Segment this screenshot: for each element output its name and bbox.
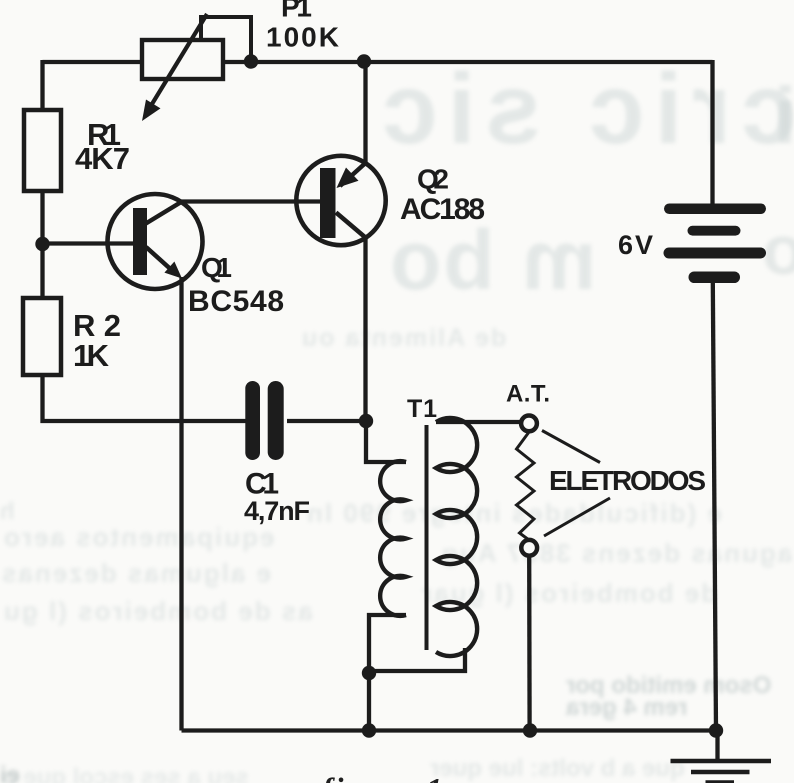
node junction dots <box>35 54 723 737</box>
node bottom rail electrode junction <box>523 723 537 737</box>
svg-text:100K: 100K <box>266 21 339 52</box>
node R1 R2 base junction <box>35 237 49 251</box>
transistor Q2 <box>296 156 385 245</box>
svg-text:A.T.: A.T. <box>506 381 550 408</box>
svg-text:1K: 1K <box>73 338 110 373</box>
svg-text:6V: 6V <box>618 230 653 260</box>
transformer T1 core <box>425 425 429 650</box>
svg-text:Q1: Q1 <box>201 252 232 283</box>
wire left rail middle <box>40 190 44 299</box>
wire top rail <box>43 60 713 64</box>
wire Q2 emitter up to top rail <box>363 62 367 164</box>
terminal A.T. upper <box>521 416 537 432</box>
wire right rail upper <box>710 60 714 204</box>
bleed-through background text <box>372 52 794 167</box>
svg-text:T 1: T 1 <box>407 395 437 423</box>
svg-text:BC548: BC548 <box>188 285 284 318</box>
svg-text:4K7: 4K7 <box>75 141 130 176</box>
resistor R2 <box>23 298 61 375</box>
node C1 Q2 T1 junction <box>359 414 373 428</box>
figure caption partial <box>322 771 445 783</box>
svg-text:Q2: Q2 <box>417 164 449 195</box>
wire T1 primary bottom <box>369 615 406 673</box>
wire bottom rail <box>182 728 717 732</box>
wire battery negative ground stub <box>715 730 719 759</box>
potentiometer P1 <box>142 14 251 121</box>
spark gap zigzag <box>517 432 535 540</box>
svg-text:AC188: AC188 <box>400 193 485 226</box>
wire T1 secondary bottom <box>369 648 465 671</box>
wire T1 secondary top to AT <box>436 420 521 424</box>
node bottom rail T1 junction <box>362 723 376 737</box>
wire Q1 collector to Q2 base <box>179 199 321 203</box>
capacitor C1 <box>245 381 283 460</box>
node pot wiper junction <box>244 54 258 68</box>
ground symbol <box>671 761 772 783</box>
wire node to T1 primary top <box>366 421 406 462</box>
wire left rail upper <box>40 60 44 111</box>
wire T1 bottom to rail <box>367 673 371 731</box>
svg-text:ELETRODOS: ELETRODOS <box>549 465 706 496</box>
resistor R1 <box>24 110 61 191</box>
transistor Q1 <box>43 194 203 289</box>
wire C1 right to node <box>287 419 366 423</box>
transformer T1 primary winding <box>380 461 406 616</box>
wire Q1 emitter down <box>179 277 183 731</box>
svg-text:P1: P1 <box>281 0 312 23</box>
wire right rail lower <box>713 281 716 730</box>
wire left rail lower <box>43 374 247 421</box>
wire Q2 collector down to node <box>363 238 367 421</box>
node Q2 emitter top junction <box>357 54 371 68</box>
terminal lower electrode <box>521 540 537 556</box>
svg-text:4,7nF: 4,7nF <box>244 496 310 526</box>
pointer line lower electrode <box>544 498 610 536</box>
pointer line upper electrode <box>542 431 600 463</box>
node bottom rail battery junction <box>709 723 723 737</box>
node T1 windings bottom junction <box>362 666 376 680</box>
wire electrode lower down <box>527 555 532 731</box>
battery 6V <box>664 204 767 284</box>
transformer T1 secondary winding <box>436 418 477 656</box>
